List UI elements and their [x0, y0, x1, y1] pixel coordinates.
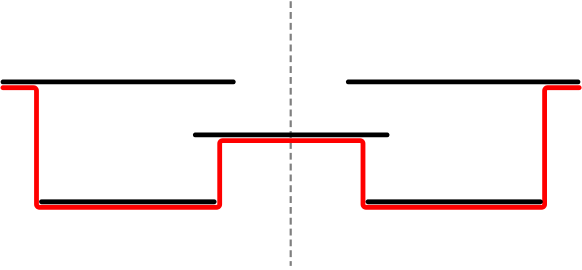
black line bottom-right: [368, 199, 540, 204]
black line middle: [195, 132, 387, 137]
centerline (dashed): [290, 1, 292, 266]
black line bottom-left: [42, 199, 215, 204]
red profile path: [3, 88, 579, 208]
black line top-left: [3, 80, 233, 85]
black line top-right: [348, 80, 578, 85]
